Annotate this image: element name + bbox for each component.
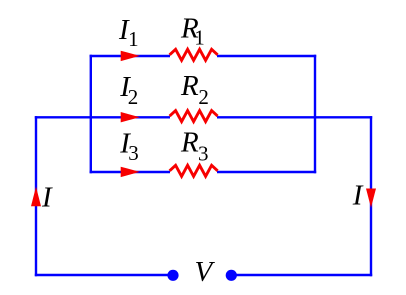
wire bottom right segment bbox=[231, 274, 372, 276]
current arrow I1 bbox=[121, 51, 140, 61]
svg-text:R: R bbox=[180, 70, 199, 102]
wire middle branch right segment bbox=[217, 116, 372, 118]
svg-text:I: I bbox=[41, 182, 53, 214]
svg-text:3: 3 bbox=[128, 141, 139, 165]
wire inner left vertical bbox=[90, 55, 92, 173]
wire middle branch left segment bbox=[35, 116, 170, 118]
wire inner right vertical bbox=[314, 55, 316, 173]
resistor R1 bbox=[170, 49, 218, 60]
current arrow I2 bbox=[121, 112, 140, 122]
terminal dot left bbox=[167, 270, 178, 281]
svg-text:1: 1 bbox=[194, 26, 205, 50]
wire top branch left segment bbox=[90, 55, 170, 57]
wire bottom branch right segment bbox=[217, 171, 316, 173]
wire bottom left segment bbox=[35, 274, 173, 276]
current arrow I3 bbox=[121, 167, 140, 177]
wire top branch right segment bbox=[217, 55, 316, 57]
wire outer left vertical bbox=[35, 116, 37, 276]
svg-text:I: I bbox=[352, 179, 364, 211]
current arrow I up (left) bbox=[31, 187, 41, 207]
current arrow I down (right) bbox=[366, 189, 376, 208]
wire bottom branch left segment bbox=[90, 171, 170, 173]
resistor R2 bbox=[170, 111, 218, 122]
resistor R3 bbox=[170, 165, 218, 176]
svg-text:R: R bbox=[180, 127, 199, 159]
svg-text:1: 1 bbox=[128, 27, 139, 51]
wire outer right vertical bbox=[370, 116, 372, 276]
terminal dot right bbox=[226, 270, 237, 281]
svg-text:3: 3 bbox=[198, 141, 209, 165]
svg-text:2: 2 bbox=[198, 85, 209, 109]
svg-text:2: 2 bbox=[128, 85, 139, 109]
svg-text:V: V bbox=[195, 256, 216, 288]
